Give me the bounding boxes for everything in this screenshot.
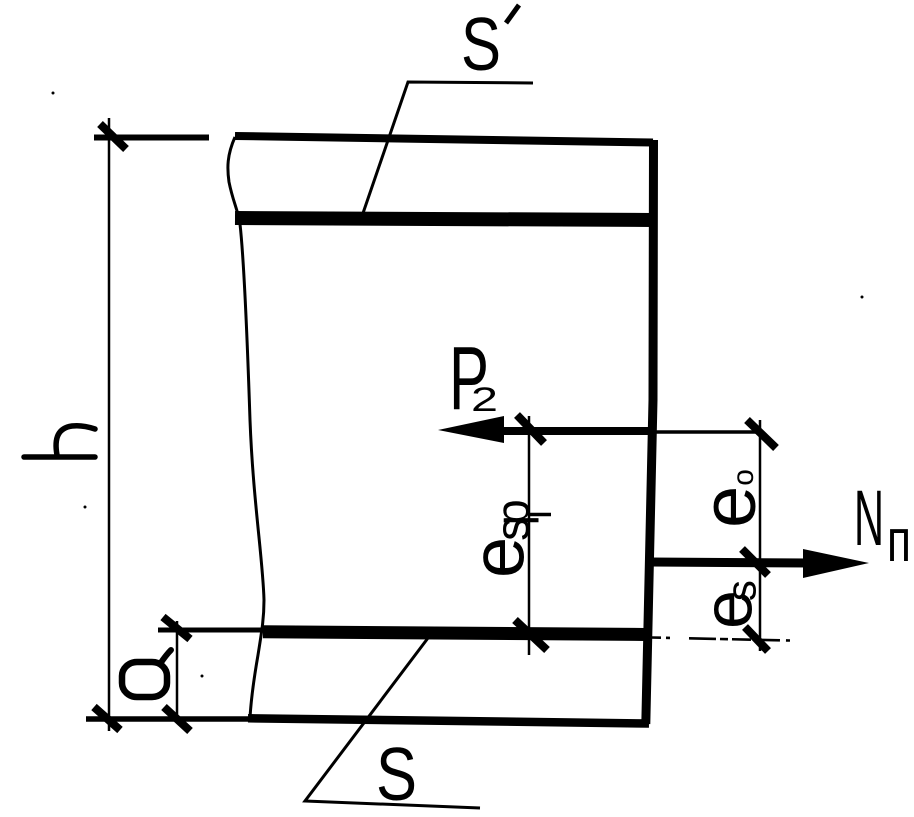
scan speck 1 (52, 92, 55, 95)
prime mark of S' (506, 5, 519, 23)
tick at a top (163, 617, 190, 639)
label a (rotated): tail (160, 650, 171, 664)
tick at esp bottom (515, 620, 547, 650)
force N arrowhead (pointing right) (803, 549, 869, 578)
tick at eo bottom / N line (742, 549, 768, 575)
reinforcement bar S (bottom) (263, 632, 645, 635)
esp dimension line (528, 416, 531, 655)
tick at esp top (517, 415, 544, 443)
eo/es dimension line (759, 420, 762, 651)
label es (rotated) (689, 580, 767, 629)
force P2 shaft (495, 427, 655, 435)
h dimension line (108, 118, 111, 731)
section bottom edge (248, 718, 649, 723)
section top edge (235, 136, 653, 143)
label h (rotated): hump (56, 426, 95, 455)
a dimension line (176, 621, 179, 721)
label esp (rotated) (457, 499, 540, 578)
tick at a bottom (164, 707, 190, 731)
svg-text:S: S (461, 2, 501, 86)
tick at es bottom (745, 627, 768, 651)
svg-text:п: п (887, 507, 911, 574)
p descender stem of esp crossing the line (528, 513, 551, 517)
leader line for S (305, 638, 480, 808)
dash-dot extension line at bar level (651, 638, 790, 641)
tick at h top (100, 124, 126, 149)
P2 extension line to eo dimension (655, 430, 758, 434)
a top extension line (at bar level) (158, 628, 263, 633)
svg-text:S: S (376, 732, 417, 816)
h top extension line (94, 135, 209, 141)
force P2 arrowhead (pointing left) (438, 416, 504, 443)
force N shaft (650, 562, 810, 563)
label eo (rotated) (687, 469, 772, 528)
leader line for S' (361, 82, 533, 219)
scan speck 2 (84, 506, 87, 509)
h bottom extension line (86, 716, 250, 722)
tick at eo top (747, 420, 776, 448)
reinforcement bar S' (top) (235, 218, 652, 220)
scan speck 4 (861, 296, 864, 299)
scan speck 3 (201, 675, 204, 678)
label a (rotated): bowl (122, 662, 167, 697)
section right edge (646, 140, 654, 724)
label h (rotated): stem (24, 454, 95, 460)
tick at h bottom (94, 707, 120, 730)
svg-text:2: 2 (471, 381, 498, 419)
svg-text:N: N (854, 473, 884, 562)
section wavy left break edge (228, 137, 264, 718)
